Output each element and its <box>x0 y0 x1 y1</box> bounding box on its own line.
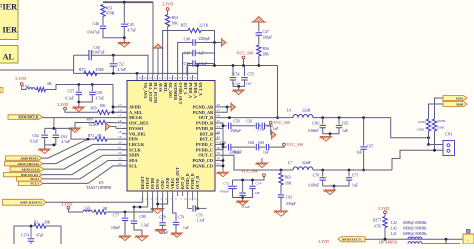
svg-text:AIO8 SCLK: AIO8 SCLK <box>21 167 40 171</box>
svg-text:0.047uF: 0.047uF <box>92 50 105 54</box>
wire <box>280 185 282 194</box>
junction <box>213 41 216 44</box>
junction <box>445 238 448 241</box>
svg-text:600R@100MHz: 600R@100MHz <box>403 227 427 231</box>
svg-text:AMP PDN1: AMP PDN1 <box>20 156 38 160</box>
capacitor C64 <box>44 128 46 134</box>
IC U5 TAS5711PHPR <box>127 81 215 192</box>
svg-text:3.3VD: 3.3VD <box>378 206 389 211</box>
capacitor C54 <box>230 78 236 80</box>
junction <box>242 64 245 67</box>
junction <box>237 85 240 88</box>
svg-text:PGND_AB: PGND_AB <box>193 105 213 110</box>
svg-text:C47: C47 <box>263 30 269 34</box>
wire PVDD_C <box>220 144 223 149</box>
inductor L22 <box>26 88 35 90</box>
svg-text:DVSS: DVSS <box>156 179 160 189</box>
wire <box>44 145 46 149</box>
capacitor C81 <box>278 195 284 197</box>
wire <box>322 128 324 134</box>
wire <box>186 66 188 76</box>
svg-text:42: 42 <box>217 135 221 139</box>
svg-text:HP AMP R: HP AMP R <box>379 240 397 245</box>
capacitor C69 <box>266 144 268 150</box>
wire <box>53 118 55 129</box>
svg-text:LRCLK: LRCLK <box>129 142 145 147</box>
svg-text:R238: R238 <box>438 119 446 123</box>
resistor R56 <box>257 45 261 56</box>
wire long bottom <box>74 72 198 74</box>
resistor 0R <box>37 87 46 91</box>
svg-text:BST_A: BST_A <box>183 83 187 95</box>
wire <box>178 43 193 76</box>
wire <box>46 85 114 90</box>
svg-text:C46: C46 <box>93 22 99 26</box>
svg-text:23: 23 <box>118 157 122 161</box>
svg-text:2200pF: 2200pF <box>199 37 211 41</box>
junction <box>257 64 260 67</box>
svg-text:L32: L32 <box>391 221 397 225</box>
svg-text:TAS5711PHPR: TAS5711PHPR <box>86 185 111 190</box>
svg-text:0.68nF: 0.68nF <box>308 129 319 133</box>
svg-text:38: 38 <box>217 157 221 161</box>
wire <box>79 95 93 102</box>
wire <box>136 73 138 80</box>
svg-text:1uF: 1uF <box>246 81 252 85</box>
svg-text:C174: C174 <box>21 234 29 238</box>
svg-text:1uF: 1uF <box>273 127 279 131</box>
svg-text:AIO6 MCLK: AIO6 MCLK <box>18 115 39 119</box>
junction <box>53 144 56 147</box>
svg-text:1uF: 1uF <box>352 184 358 188</box>
power 3.3VD <box>384 211 387 214</box>
wire <box>277 66 279 118</box>
junction <box>196 64 199 67</box>
inductor L7 <box>293 167 313 170</box>
svg-text:L7: L7 <box>288 161 292 165</box>
svg-text:R54: R54 <box>172 16 178 20</box>
capacitor C55 <box>241 78 247 80</box>
wire SCL <box>43 166 127 184</box>
svg-text:0R: 0R <box>98 134 103 138</box>
wire <box>322 180 324 186</box>
wire <box>65 110 98 112</box>
wire <box>422 243 460 245</box>
wire OUT_C to CN1 <box>392 150 443 170</box>
wire <box>238 86 240 89</box>
wire <box>233 177 265 180</box>
wire HP detect <box>365 238 463 240</box>
svg-text:37: 37 <box>217 162 221 166</box>
svg-text:VCC_SW: VCC_SW <box>287 142 304 147</box>
svg-text:C59: C59 <box>234 120 240 124</box>
svg-text:48: 48 <box>217 103 221 107</box>
wire SDIN <box>42 155 127 174</box>
wire <box>92 211 94 213</box>
junction <box>123 36 126 39</box>
svg-text:1uF: 1uF <box>255 191 260 195</box>
svg-text:GVDD_OUT: GVDD_OUT <box>176 167 180 189</box>
junction <box>329 132 332 135</box>
svg-text:10K: 10K <box>172 22 179 26</box>
wire <box>68 209 83 212</box>
svg-text:150K: 150K <box>417 128 425 132</box>
svg-text:BST_D: BST_D <box>181 177 185 189</box>
svg-text:45: 45 <box>217 119 221 123</box>
wire <box>243 59 245 66</box>
ground <box>171 233 182 237</box>
svg-text:PVDD_A: PVDD_A <box>188 83 192 99</box>
svg-text:PLL_FLTM: PLL_FLTM <box>153 83 157 104</box>
svg-text:CN1: CN1 <box>445 132 453 137</box>
resistor 0R <box>94 210 106 214</box>
net flag 928B <box>443 102 467 107</box>
svg-text:1nF: 1nF <box>356 151 362 155</box>
wire <box>323 180 349 186</box>
svg-text:C74: C74 <box>256 182 262 186</box>
IC right pins <box>215 106 220 108</box>
svg-text:47uF: 47uF <box>36 234 43 238</box>
wire <box>280 197 282 210</box>
svg-text:PVDD_C: PVDD_C <box>196 142 213 147</box>
svg-text:330pF: 330pF <box>263 36 273 40</box>
wire <box>0 69 74 71</box>
capacitor C76 <box>188 196 192 208</box>
svg-text:0.68nF: 0.68nF <box>308 184 319 188</box>
svg-text:C80: C80 <box>140 215 146 219</box>
svg-text:3.3VD: 3.3VD <box>162 2 173 7</box>
net flag AMP_RESET1 <box>3 199 47 205</box>
svg-text:AIO5 LRCLK: AIO5 LRCLK <box>17 162 39 166</box>
wire <box>107 138 127 140</box>
svg-text:STEST: STEST <box>146 176 150 189</box>
svg-text:1.3uF: 1.3uF <box>196 218 204 222</box>
power 3.3VD <box>20 83 23 86</box>
wire <box>152 2 154 75</box>
svg-text:470R: 470R <box>106 12 115 16</box>
svg-text:C58: C58 <box>96 91 102 95</box>
wire <box>231 125 255 127</box>
svg-text:OUT_D: OUT_D <box>196 176 200 189</box>
svg-text:24: 24 <box>118 162 122 166</box>
svg-text:1: 1 <box>467 239 469 243</box>
capacitor C70 <box>322 170 324 177</box>
svg-text:OC_ADJ: OC_ADJ <box>168 83 172 98</box>
capacitor C47 <box>256 33 262 35</box>
junction <box>112 54 115 57</box>
ground <box>155 230 166 234</box>
svg-text:18R: 18R <box>263 53 270 57</box>
junction <box>333 185 336 188</box>
power VCC_SW <box>242 56 245 59</box>
svg-text:3300pF: 3300pF <box>230 129 241 133</box>
hierarchical block AMPLIFIER (clipped) <box>0 0 18 40</box>
ground <box>74 123 76 128</box>
svg-text:R3: R3 <box>34 221 38 225</box>
capacitor C79 <box>173 222 179 224</box>
wire <box>195 42 221 44</box>
wire DVSS + AGND <box>157 196 159 208</box>
svg-text:C61: C61 <box>247 120 253 124</box>
svg-text:SDA1: SDA1 <box>30 177 39 181</box>
IC bottom pins <box>142 191 144 196</box>
svg-text:PVDD_A: PVDD_A <box>193 83 197 99</box>
junction <box>384 238 387 241</box>
IC left pins <box>122 106 127 108</box>
net flag AMP PDN1 <box>6 156 43 160</box>
svg-text:L42: L42 <box>391 227 397 231</box>
wire VCC_SW rail <box>187 65 278 67</box>
capacitor C73 <box>242 180 244 192</box>
svg-text:GND: GND <box>161 180 165 189</box>
svg-text:3.3VD: 3.3VD <box>15 76 26 81</box>
wire SCLK <box>44 150 127 169</box>
wire VREG <box>173 196 176 221</box>
wire OUT_C <box>220 155 293 170</box>
wire <box>231 146 255 148</box>
capacitor C50 <box>89 50 91 60</box>
ground <box>261 158 263 163</box>
wire <box>384 228 386 240</box>
wire <box>258 35 260 44</box>
capacitor C80 <box>133 207 135 220</box>
wire <box>258 56 260 66</box>
junction <box>213 64 216 67</box>
svg-text:R56: R56 <box>263 47 269 51</box>
svg-text:C70: C70 <box>313 174 319 178</box>
power arrow <box>152 44 163 48</box>
svg-text:AMP_RESET1: AMP_RESET1 <box>20 201 43 205</box>
svg-text:928A: 928A <box>456 96 464 100</box>
power 3.3VD <box>64 107 67 110</box>
svg-text:L4: L4 <box>287 109 291 113</box>
wire <box>123 38 125 43</box>
svg-text:VCC_SW: VCC_SW <box>237 51 254 56</box>
svg-text:21: 21 <box>118 146 122 150</box>
ground <box>217 172 229 177</box>
wire <box>45 138 56 145</box>
svg-text:470nF: 470nF <box>220 189 229 193</box>
svg-text:RESET: RESET <box>141 176 145 189</box>
wire <box>313 169 392 171</box>
svg-text:470R: 470R <box>96 68 105 72</box>
svg-text:SCLK: SCLK <box>129 147 141 152</box>
junction <box>241 196 244 199</box>
power VCC_SW <box>283 143 286 146</box>
resistor R59 <box>98 110 110 114</box>
wire <box>265 124 271 126</box>
resistor R71 <box>95 137 107 141</box>
net flag SDA1 <box>17 177 44 181</box>
wire CN1 pin1 <box>429 144 444 146</box>
svg-text:C69: C69 <box>258 141 264 145</box>
resistor R63 <box>280 169 283 172</box>
svg-text:C50: C50 <box>93 46 99 50</box>
resistor R57 <box>84 71 97 75</box>
svg-text:1uF: 1uF <box>342 129 348 133</box>
svg-text:SDA: SDA <box>129 158 138 163</box>
svg-text:OSC_RES: OSC_RES <box>129 121 149 126</box>
junction <box>112 111 115 114</box>
wire <box>195 52 214 54</box>
wire <box>46 226 61 244</box>
svg-text:VREG: VREG <box>171 178 175 189</box>
wire <box>244 66 246 77</box>
svg-text:BST_B: BST_B <box>200 131 213 136</box>
wire <box>123 2 125 23</box>
svg-text:46: 46 <box>217 114 221 118</box>
wire <box>107 122 127 124</box>
analog ground arrow PGND <box>231 102 236 112</box>
capacitor C174 <box>30 226 32 238</box>
svg-text:30K: 30K <box>44 221 51 225</box>
IC top pins <box>142 75 144 81</box>
inductor L41 <box>408 237 422 239</box>
capacitor C66 <box>229 144 231 150</box>
page connector fragment <box>0 88 3 93</box>
wire <box>102 17 104 26</box>
svg-text:330pF: 330pF <box>286 202 296 206</box>
power 3.3VD <box>67 206 70 209</box>
svg-text:SDIN: SDIN <box>129 153 140 158</box>
wire <box>167 27 169 76</box>
wire <box>214 43 216 66</box>
svg-text:PDN: PDN <box>129 137 139 142</box>
svg-text:PBTL: PBTL <box>163 83 167 94</box>
svg-text:R53: R53 <box>106 7 112 11</box>
svg-text:VCC_SW: VCC_SW <box>241 169 258 174</box>
wire <box>188 64 193 76</box>
wire <box>323 128 339 134</box>
capacitor C51 <box>193 60 195 66</box>
wire PDN via R71 <box>42 139 95 158</box>
svg-text:4.7uF: 4.7uF <box>61 140 70 144</box>
svg-text:150K: 150K <box>437 126 445 130</box>
svg-text:C71: C71 <box>352 174 358 178</box>
svg-text:C57: C57 <box>68 89 74 93</box>
capacitor C62 <box>262 123 264 129</box>
svg-text:C54: C54 <box>233 73 239 77</box>
svg-text:0.1uF: 0.1uF <box>65 97 74 101</box>
junction <box>112 72 115 75</box>
capacitor C63 <box>55 128 57 134</box>
svg-text:1.3uF: 1.3uF <box>141 224 149 228</box>
wire <box>259 146 265 148</box>
svg-text:14: 14 <box>118 108 122 112</box>
svg-text:600R@100MHz: 600R@100MHz <box>403 221 427 225</box>
resistor R3 <box>14 226 34 244</box>
wire OUT_B to CN1 <box>391 118 429 138</box>
capacitor C61 <box>256 123 258 129</box>
resistor R53 <box>101 5 105 17</box>
capacitor C74 <box>252 180 254 185</box>
svg-text:AGND: AGND <box>166 177 170 189</box>
svg-text:R59: R59 <box>91 106 97 110</box>
svg-text:VR_ANA: VR_ANA <box>143 83 147 99</box>
svg-text:IER: IER <box>2 26 17 35</box>
wire PGND_AB <box>220 106 227 108</box>
wire DVSSO <box>111 127 128 129</box>
wire PGND_CD <box>220 161 223 166</box>
svg-text:PVDD_B: PVDD_B <box>196 126 213 131</box>
svg-text:OUT_C: OUT_C <box>198 153 213 158</box>
wire <box>22 85 26 89</box>
capacitor C45 <box>121 24 127 26</box>
wire PVDD_B <box>220 123 223 128</box>
wire <box>363 149 365 170</box>
inductor L43 <box>83 210 92 212</box>
svg-text:AVDD: AVDD <box>129 105 141 110</box>
svg-text:C79: C79 <box>178 216 184 220</box>
power 3.3VD <box>166 8 169 11</box>
wire <box>269 146 284 147</box>
svg-text:R71: R71 <box>88 134 94 138</box>
svg-text:R233: R233 <box>418 120 426 124</box>
svg-text:4.7nF: 4.7nF <box>118 68 127 72</box>
svg-text:22.1K: 22.1K <box>199 24 209 28</box>
wire <box>445 239 447 244</box>
capacitor C77 <box>124 212 126 217</box>
wire <box>35 89 37 91</box>
svg-text:PGND_CD: PGND_CD <box>192 158 213 163</box>
wire <box>384 214 386 216</box>
power arrow <box>251 17 266 23</box>
svg-text:BST_C: BST_C <box>200 137 213 142</box>
svg-text:R57: R57 <box>79 68 85 72</box>
wire <box>258 22 260 32</box>
net flag SCL1 <box>19 181 44 185</box>
svg-text:C52: C52 <box>118 62 124 66</box>
svg-text:600R@100MHz: 600R@100MHz <box>403 232 427 236</box>
wire <box>313 117 391 119</box>
svg-text:C63: C63 <box>61 135 67 139</box>
net flag AIO6 MCLK <box>8 115 43 120</box>
svg-text:0.047uF: 0.047uF <box>87 31 100 35</box>
wire RESET <box>46 196 143 202</box>
svg-text:10K: 10K <box>100 104 107 108</box>
capacitor C57 <box>78 85 80 92</box>
capacitor C72 <box>232 180 234 185</box>
svg-text:PVDD_B: PVDD_B <box>196 121 213 126</box>
svg-text:928B: 928B <box>456 102 464 106</box>
svg-text:R60: R60 <box>87 118 93 122</box>
wire STEST <box>147 196 149 207</box>
ground <box>320 137 332 142</box>
svg-text:PVDD_D: PVDD_D <box>191 173 195 189</box>
ground <box>274 211 288 216</box>
svg-text:OUT_B: OUT_B <box>199 115 213 120</box>
svg-text:22uH: 22uH <box>302 109 311 113</box>
wire <box>195 63 214 65</box>
svg-text:4.7uF: 4.7uF <box>96 97 105 101</box>
junction <box>77 101 80 104</box>
wire <box>233 189 253 198</box>
svg-text:C67: C67 <box>367 145 373 149</box>
analog ground arrow <box>106 122 111 132</box>
capacitor C78 <box>159 223 165 225</box>
net flag HP DETECT1 <box>338 237 365 242</box>
ground <box>135 236 148 241</box>
ground <box>119 236 131 241</box>
svg-text:3.3VD: 3.3VD <box>318 239 329 244</box>
svg-text:14.3K: 14.3K <box>88 123 97 127</box>
wire <box>183 53 193 75</box>
resistor R54 <box>165 15 169 27</box>
svg-text:C76: C76 <box>196 214 202 218</box>
svg-text:C55: C55 <box>248 73 254 77</box>
net flag AIO8 SCLK <box>10 167 44 171</box>
svg-text:SCL: SCL <box>129 163 137 168</box>
